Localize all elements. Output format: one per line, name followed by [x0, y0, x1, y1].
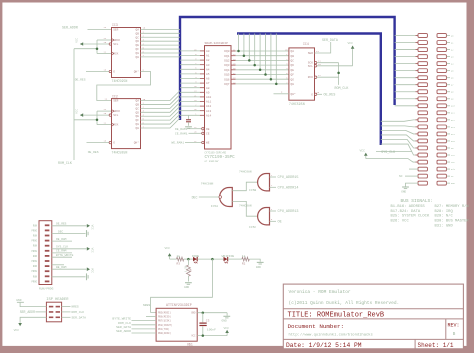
svg-text:74HC08N: 74HC08N	[239, 205, 252, 208]
svg-text:RUN: RUN	[33, 235, 38, 238]
wire addr bus to pad B1	[395, 35, 416, 37]
LED1 DONE	[193, 257, 197, 261]
svg-text:(c)2011 Quinn Dunki, All Right: (c)2011 Quinn Dunki, All Rights Reserved…	[289, 300, 400, 306]
stub pad n/c	[409, 168, 418, 170]
svg-text:ROM_CLK: ROM_CLK	[335, 86, 349, 90]
wire IC4 SCK RCK clock tie	[314, 62, 316, 64]
svg-text:74HC595N: 74HC595N	[112, 79, 128, 83]
svg-text:QB: QB	[136, 32, 140, 35]
pad B34 bus connector right	[437, 153, 446, 157]
connector ISP header box	[46, 302, 61, 322]
wire SRAM DQ5 to data bus and IC4 QF	[231, 74, 236, 76]
pin 1 of SV1	[45, 224, 50, 226]
pin 12 of SV1	[45, 281, 50, 283]
wire DEC to GND	[52, 233, 86, 235]
svg-text:DQ0: DQ0	[224, 50, 229, 53]
ground pad wire	[406, 183, 419, 187]
wire IC2 QG to addr bus	[141, 114, 181, 124]
svg-text:R2: R2	[242, 262, 246, 265]
svg-text:QF: QF	[136, 119, 140, 122]
svg-text:VCC: VCC	[75, 37, 78, 42]
svg-text:CE_RAM: CE_RAM	[56, 250, 67, 253]
resistor R3 1k	[170, 258, 177, 260]
junction C3 bottom	[202, 334, 205, 337]
wire IC3 RCK pin 12	[97, 53, 112, 55]
svg-text:OE_RES: OE_RES	[56, 223, 67, 226]
svg-text:ROM_CLK: ROM_CLK	[58, 161, 72, 165]
svg-text:Sheet: 1/1: Sheet: 1/1	[418, 342, 454, 349]
svg-text:OE_RAM1: OE_RAM1	[175, 128, 188, 131]
pad B5 bus connector left	[418, 62, 427, 66]
wire SRAM A4 from addr bus	[180, 68, 200, 70]
wire BYTE_WRITE to ATTINY	[132, 320, 157, 322]
svg-text:QF: QF	[291, 74, 295, 77]
power VCC ATTINY	[225, 330, 229, 333]
svg-text:QD: QD	[136, 40, 140, 43]
wire ATTINY VCC net	[197, 335, 227, 337]
junction data bit 4	[259, 69, 262, 72]
junction data bit 6	[270, 78, 273, 81]
gate IC5C and	[258, 208, 270, 225]
pad B28 bus connector right	[437, 111, 446, 115]
wire IC3 QC to addr bus	[141, 36, 181, 38]
wire IC2 G pin 13	[87, 142, 110, 144]
svg-text:BYTE_WRITE: BYTE_WRITE	[56, 254, 74, 257]
pad B21 bus connector left	[418, 174, 427, 178]
ground ATTINY	[223, 315, 230, 317]
svg-text:PROG: PROG	[31, 280, 37, 283]
svg-text:SER: SER	[308, 52, 313, 55]
wire SRAM OE pin	[189, 128, 202, 130]
svg-text:OE: OE	[278, 221, 282, 225]
wire IC3 QE to addr bus	[141, 44, 181, 46]
wire SER_DATA to ATTINY	[132, 328, 157, 330]
svg-text:SER_ADDR: SER_ADDR	[62, 26, 78, 30]
pad B37 bus connector right	[437, 174, 446, 178]
bus ADDR (navy) top/left	[180, 17, 395, 120]
wire OE input	[270, 220, 277, 222]
junction data bit 1	[243, 54, 246, 57]
svg-text:SCL: SCL	[308, 65, 313, 68]
svg-text:C3: C3	[206, 319, 210, 322]
svg-text:QH*: QH*	[134, 141, 139, 145]
svg-text:CPU_ADDR13: CPU_ADDR13	[278, 210, 299, 214]
wire SRAM A13 from addr bus	[180, 110, 200, 112]
power VCC at R3	[169, 255, 171, 260]
resistor R2 1k	[242, 257, 249, 261]
pin 2 of SV1	[45, 230, 50, 232]
svg-text:Date: 1/9/12 5:14 PM: Date: 1/9/12 5:14 PM	[286, 342, 362, 349]
svg-text:B30: BUS MASTER: B30: BUS MASTER	[435, 220, 470, 224]
wire ATTINY GND net	[197, 312, 227, 314]
wire IC2 QH to addr bus	[141, 118, 181, 128]
wire SRAM DQ6 to data bus and IC4 QG	[231, 78, 236, 80]
pad B24 bus connector right	[437, 83, 446, 87]
svg-text:QC: QC	[136, 36, 140, 39]
ground R2	[257, 261, 264, 263]
svg-text:http://www.quinndunki.com/blon: http://www.quinndunki.com/blondihacks	[289, 332, 373, 337]
pad B33 bus connector right	[437, 146, 446, 150]
wire to GND rot	[52, 276, 86, 278]
svg-text:A7: A7	[206, 82, 210, 85]
pin 5 of SV1	[45, 245, 50, 247]
bus DATA (navy) inner	[237, 34, 381, 146]
svg-text:A5: A5	[206, 73, 210, 76]
svg-text:QA: QA	[291, 50, 295, 53]
pad B26 bus connector right	[437, 97, 446, 101]
pad B21 bus connector right	[437, 62, 446, 66]
svg-text:QH*: QH*	[134, 70, 139, 74]
pad B23 bus connector right	[437, 76, 446, 80]
wire SRAM DQ4 to data bus and IC4 QE	[231, 69, 236, 71]
svg-text:A4: A4	[206, 68, 210, 71]
wire IC3 QH' chain to IC2 SER	[97, 72, 151, 101]
wire IC3 QG to addr bus	[141, 52, 181, 54]
svg-text:QD: QD	[136, 111, 140, 114]
wire SRAM DQ0 to data bus and IC4 QA	[231, 50, 236, 52]
wire IC3 SRCK pin 11	[97, 39, 112, 41]
svg-text:WE: WE	[206, 142, 210, 145]
wire IC2 QB to addr bus	[141, 94, 181, 104]
svg-text:GND: GND	[184, 286, 189, 289]
op U$1 ATTINY2313 box	[156, 308, 197, 341]
wire SRAM A10 from addr bus	[180, 96, 200, 98]
svg-text:SER_ADDR: SER_ADDR	[116, 329, 131, 333]
wire IC2 SRCK pin 11	[97, 110, 112, 112]
svg-text:SYS_CLK: SYS_CLK	[56, 246, 68, 249]
pin 8 of SV1	[45, 260, 50, 262]
wire SRAM A7 from addr bus	[180, 82, 200, 84]
power VCC to IC2 pin 10	[80, 114, 109, 116]
svg-text:74HC08N: 74HC08N	[201, 182, 214, 185]
svg-text:A8: A8	[206, 87, 210, 90]
svg-text:G: G	[311, 93, 313, 96]
wire IC3 G pin 13	[86, 71, 109, 73]
junction data bit 2	[248, 59, 251, 62]
svg-text:IC5A: IC5A	[211, 205, 218, 208]
svg-text:QE: QE	[136, 115, 140, 118]
svg-text:VCC: VCC	[14, 329, 20, 332]
svg-text:GND: GND	[256, 266, 261, 269]
svg-text:A1: A1	[206, 55, 210, 58]
pad B35 bus connector right	[437, 160, 446, 164]
svg-text:VCC: VCC	[91, 268, 94, 273]
op IC2 74HC595 box	[112, 99, 141, 149]
resistor R4 1.5k vertical	[187, 259, 189, 265]
wire IC2 QF to addr bus	[141, 110, 181, 120]
pad B13 bus connector left	[418, 118, 427, 122]
svg-text:WE_RAM1: WE_RAM1	[171, 142, 184, 145]
svg-text:RUN: RUN	[33, 224, 38, 227]
pad B29 bus connector right	[437, 118, 446, 122]
pin 5 of ISP header	[49, 317, 53, 319]
pin 11 of SV1	[45, 275, 50, 277]
wire CPU_ADDR15 input	[270, 176, 277, 178]
svg-text:GND: GND	[16, 299, 21, 302]
svg-text:G: G	[113, 71, 115, 74]
wire CPU_ADDR13 input	[270, 210, 277, 212]
wire data bus to pad B18	[381, 144, 416, 155]
wire SRAM DQ3 to data bus and IC4 QD	[231, 64, 236, 66]
svg-text:RUN/PROG: RUN/PROG	[39, 286, 54, 290]
svg-text:A14: A14	[206, 114, 211, 117]
svg-text:SYS_CLK: SYS_CLK	[381, 150, 395, 154]
svg-text:Document Number:: Document Number:	[288, 323, 345, 330]
wire BYTE_WRITE	[52, 256, 72, 258]
wire SRAM A12 from addr bus	[180, 105, 200, 107]
wire CE_RAM	[52, 252, 72, 254]
wire SRAM A11 from addr bus	[180, 101, 200, 103]
svg-text:GND: GND	[191, 312, 196, 315]
pad B31 bus connector right	[437, 132, 446, 136]
svg-text:B28: IRQ: B28: IRQ	[435, 210, 454, 214]
svg-text:IC5B: IC5B	[249, 189, 256, 192]
capacitor C3 100nF	[202, 313, 204, 323]
svg-text:ROM_CLK: ROM_CLK	[72, 311, 85, 314]
svg-text:PB0(AIN0): PB0(AIN0)	[158, 332, 171, 335]
svg-text:PROG: PROG	[31, 229, 37, 232]
wire IC2 QE to addr bus	[141, 106, 181, 116]
svg-text:OE_RAM: OE_RAM	[56, 238, 67, 241]
wire IC3 QH to addr bus	[141, 56, 181, 58]
svg-text:QE: QE	[291, 69, 295, 72]
svg-text:A12: A12	[206, 105, 211, 108]
svg-text:B17-B24: DATA: B17-B24: DATA	[391, 210, 421, 214]
svg-text:SRCK: SRCK	[113, 110, 120, 113]
junction data bit 5	[264, 73, 267, 76]
svg-text:QH*: QH*	[291, 92, 296, 96]
wire SRAM A1 from addr bus	[180, 55, 200, 57]
svg-text:R3: R3	[177, 262, 181, 265]
svg-text:DQ2: DQ2	[224, 60, 229, 63]
wire SRAM A9 from addr bus	[180, 91, 200, 93]
pad B4 bus connector left	[418, 55, 427, 59]
junction R3-R4	[187, 258, 190, 261]
svg-text:DONE: DONE	[192, 255, 199, 258]
svg-text:PD2(CKOUT): PD2(CKOUT)	[158, 324, 173, 327]
pad B36 bus connector right	[437, 167, 446, 171]
wire SRAM A2 from addr bus	[180, 59, 200, 61]
svg-text:SER_DATA: SER_DATA	[322, 38, 338, 42]
svg-text:RUN: RUN	[33, 265, 38, 268]
pin 9 of SV1	[45, 265, 50, 267]
wire addr bus to pad B10	[395, 98, 416, 100]
svg-text:RCK: RCK	[113, 124, 118, 127]
svg-text:REV:: REV:	[448, 323, 460, 329]
svg-text:74HC08N: 74HC08N	[239, 171, 252, 174]
pin 4 of SV1	[45, 240, 50, 242]
wire SRAM A3 from addr bus	[180, 64, 200, 66]
pad B11 bus connector left	[418, 104, 427, 108]
wire SRAM DQ1 to data bus and IC4 QB	[231, 55, 236, 57]
svg-text:DEC: DEC	[192, 195, 198, 199]
svg-text:CE: CE	[206, 132, 210, 135]
svg-text:OE: OE	[206, 128, 210, 131]
wire addr bus to pad B3	[395, 49, 416, 51]
wire SRAM WE pin	[185, 142, 202, 144]
wire ROM_CLK vertical	[73, 49, 75, 160]
svg-text:1.5k: 1.5k	[184, 265, 188, 272]
wire SER_DATA to IC4 SER	[315, 42, 331, 53]
pin 2 of ISP header	[56, 306, 60, 308]
svg-text:OE_RES: OE_RES	[324, 93, 336, 97]
wire IC4 G pin 13 OE_RES	[314, 93, 316, 95]
svg-text:VCC: VCC	[224, 327, 230, 330]
wire IC3 QD to addr bus	[141, 40, 181, 42]
svg-text:GND: GND	[222, 319, 227, 322]
svg-text:PD1(TXD): PD1(TXD)	[158, 328, 170, 331]
wire pin stub	[52, 264, 64, 266]
wire data bus to pad B16	[381, 135, 416, 141]
svg-text:QG: QG	[136, 52, 140, 55]
pin 3 of ISP header	[49, 311, 53, 313]
svg-text:VCC: VCC	[75, 109, 78, 114]
wire IC3 QA to addr bus	[141, 28, 181, 30]
pin 7 of SV1	[45, 255, 50, 257]
wire gate C output to IC5A input	[232, 201, 258, 216]
wire SRAM CE pin	[189, 132, 202, 134]
svg-text:CY7C199-35PC+RE: CY7C199-35PC+RE	[205, 152, 227, 155]
svg-text:ATTINY2313DIP: ATTINY2313DIP	[166, 303, 192, 307]
wire DEC output	[199, 196, 219, 198]
wire IC3 QF to addr bus	[141, 48, 181, 50]
junction data bit 7	[275, 83, 278, 86]
wire ISP NRES	[62, 306, 71, 308]
pin 4 of ISP header	[56, 311, 60, 313]
capacitor C2 near SRAM	[188, 115, 190, 119]
svg-text:OE_RES: OE_RES	[75, 79, 86, 82]
svg-text:B: B	[453, 332, 456, 337]
svg-text:R4: R4	[190, 268, 193, 272]
svg-text:SER_DATA: SER_DATA	[72, 316, 87, 319]
power VCC at IC4 SCL	[314, 65, 316, 67]
svg-text:PROG: PROG	[31, 260, 37, 263]
svg-text:QC: QC	[291, 60, 295, 63]
junction data bit 0	[237, 50, 240, 53]
svg-text:B25: SYSTEM CLOCK: B25: SYSTEM CLOCK	[391, 215, 430, 219]
op IC3 74HC595 box	[112, 28, 141, 78]
pad B22 bus connector left	[418, 181, 427, 185]
pad B27 bus connector right	[437, 104, 446, 108]
wire NRES from LED node	[151, 259, 213, 312]
svg-text:RCK: RCK	[113, 53, 118, 56]
pad B30 bus connector right	[437, 125, 446, 129]
svg-text:RUN: RUN	[33, 245, 38, 248]
pad B20 bus connector right	[437, 55, 446, 59]
svg-text:B31: GND: B31: GND	[435, 225, 454, 229]
title block frame	[283, 284, 463, 349]
svg-text:QG: QG	[291, 78, 295, 81]
svg-text:QB: QB	[136, 103, 140, 106]
wire ROM_CLK to ATTINY	[132, 324, 157, 326]
stub pad NC	[405, 175, 418, 177]
wire R2 to ground	[249, 259, 260, 262]
svg-text:DQ5: DQ5	[224, 74, 229, 77]
svg-text:VCC: VCC	[165, 247, 171, 250]
svg-text:DQ4: DQ4	[224, 69, 229, 72]
junction WRITING node	[211, 258, 214, 261]
svg-text:CPU_ADDR15: CPU_ADDR15	[278, 176, 299, 180]
svg-text:NRES: NRES	[143, 304, 150, 307]
wire IC4 QH' pin 9	[274, 93, 289, 95]
svg-text:A3: A3	[206, 64, 210, 67]
svg-text:DQ7: DQ7	[224, 83, 229, 86]
junction C3 top	[202, 311, 205, 314]
svg-text:QB: QB	[291, 55, 295, 58]
wire SRAM A14 from addr bus	[180, 114, 200, 116]
svg-text:PROG: PROG	[31, 270, 37, 273]
pad B3 bus connector left	[418, 48, 427, 52]
svg-text:SCL: SCL	[113, 43, 118, 46]
wire OE_RES to VCC	[52, 225, 87, 227]
svg-text:B27: MEMORY R/W: B27: MEMORY R/W	[435, 204, 470, 209]
svg-text:A9: A9	[206, 91, 210, 94]
pad B10 bus connector left	[418, 97, 427, 101]
pad B32 bus connector right	[437, 139, 446, 143]
svg-text:DQ3: DQ3	[224, 64, 229, 67]
pin 6 of ISP header	[56, 317, 60, 319]
power VCC to IC3 pin 10	[80, 43, 109, 45]
svg-text:B26: VCC: B26: VCC	[391, 220, 410, 224]
svg-text:SER: SER	[113, 100, 118, 103]
wire gate B output to IC5A input	[232, 182, 258, 191]
wire ISP SER_ADDR	[36, 311, 47, 313]
wire addr bus to pad B6	[395, 70, 416, 72]
svg-text:TITLE: ROMEmulator_RevB: TITLE: ROMEmulator_RevB	[288, 311, 385, 319]
svg-text:RUN: RUN	[33, 275, 38, 278]
svg-text:NRES: NRES	[72, 306, 79, 309]
svg-text:QC: QC	[136, 107, 140, 110]
svg-text:IC4: IC4	[303, 42, 309, 46]
pad B18 bus connector right	[437, 41, 446, 45]
svg-text:A0: A0	[206, 50, 210, 53]
svg-text:QA: QA	[136, 100, 140, 103]
svg-text:74HC595N: 74HC595N	[289, 102, 305, 106]
wire IC3 QB to addr bus	[141, 32, 181, 34]
wire data bus to pad B17	[381, 140, 416, 148]
pad B16 bus connector left	[418, 139, 427, 143]
svg-text:PB6(MISO): PB6(MISO)	[158, 316, 171, 319]
svg-text:IC3: IC3	[112, 23, 118, 27]
svg-text:NC: NC	[399, 175, 403, 178]
wire SER_ADDR to ATTINY	[132, 332, 157, 334]
svg-text:IC2: IC2	[112, 94, 118, 98]
wire IC2 QD to addr bus	[141, 102, 181, 112]
svg-text:VCC: VCC	[91, 248, 94, 253]
wire IC2 RCK pin 12	[97, 124, 112, 126]
svg-text:QE: QE	[136, 44, 140, 47]
pad B1 bus connector left	[418, 34, 427, 38]
wire addr bus to pad B9	[395, 91, 416, 93]
svg-text:PB5(MOSI): PB5(MOSI)	[158, 311, 171, 314]
wire SRAM A0 from addr bus	[180, 50, 200, 52]
svg-text:PROG: PROG	[31, 240, 37, 243]
svg-text:A10: A10	[206, 96, 211, 99]
svg-text:GND: GND	[401, 190, 406, 193]
svg-text:VCC: VCC	[360, 150, 366, 153]
svg-text:SCL: SCL	[113, 114, 118, 117]
svg-text:G: G	[113, 142, 115, 145]
wire SYS_CLK to VCC	[52, 248, 87, 250]
wire CPU_ADDR14 input	[270, 186, 277, 188]
junction clock IC3	[74, 48, 97, 50]
svg-text:SRCK: SRCK	[113, 39, 120, 42]
pad B20 bus connector left	[418, 167, 427, 171]
pad B19 bus connector right	[437, 48, 446, 52]
power VCC to pad	[366, 159, 416, 162]
pad B38 bus connector right	[437, 181, 446, 185]
ground symbol bus	[402, 186, 409, 188]
